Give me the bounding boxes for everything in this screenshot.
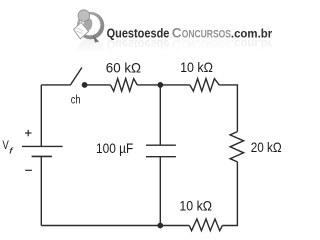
wire left vertical top xyxy=(40,85,42,146)
svg-text:20 kΩ: 20 kΩ xyxy=(251,139,282,155)
wire node B to R 10k bottom xyxy=(160,225,189,227)
svg-text:10 kΩ: 10 kΩ xyxy=(180,59,213,75)
svg-text:60 kΩ: 60 kΩ xyxy=(106,59,141,75)
svg-text:Questoesde: Questoesde xyxy=(107,26,170,41)
wire node A down to capacitor xyxy=(159,85,161,145)
svg-text:C: C xyxy=(172,26,182,41)
logo xyxy=(60,10,286,66)
svg-text:ONCURSOS: ONCURSOS xyxy=(182,29,231,41)
battery Vf xyxy=(22,130,63,171)
switch ch xyxy=(70,68,87,88)
wire capacitor down to node B xyxy=(159,157,161,226)
svg-text:ch: ch xyxy=(71,94,81,106)
wire R 60k to node A xyxy=(137,84,160,86)
svg-text:10 kΩ: 10 kΩ xyxy=(179,197,212,213)
wire R 10k top to top-right corner down to R 20k xyxy=(219,85,237,132)
svg-text:.com.br: .com.br xyxy=(231,27,273,41)
resistor 10 kOhm top xyxy=(190,79,219,92)
svg-text:100 µF: 100 µF xyxy=(96,141,133,156)
node B junction xyxy=(157,223,163,229)
resistor 20 kOhm xyxy=(230,132,244,162)
wire bottom-left horizontal xyxy=(41,225,160,227)
resistor 10 kOhm bottom xyxy=(189,219,222,231)
wire R 20k to bottom-right corner xyxy=(222,162,237,226)
wire switch to R 60k xyxy=(85,84,111,86)
wire node A to R 10k top xyxy=(160,84,190,86)
wire left vertical bottom xyxy=(40,156,42,225)
resistor 60 kOhm xyxy=(111,79,138,92)
capacitor 100 uF xyxy=(146,145,176,157)
wire top-left horizontal xyxy=(41,84,70,86)
node A junction xyxy=(157,82,163,88)
svg-text:V: V xyxy=(2,139,9,152)
